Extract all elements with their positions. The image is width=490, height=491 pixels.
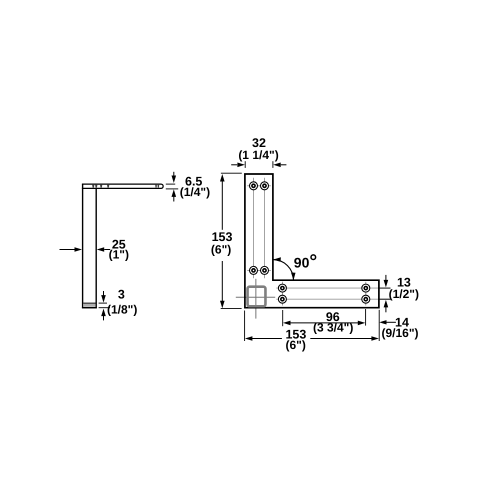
dim 96 line with arrows <box>283 321 365 326</box>
dim 13 arrow down <box>384 275 389 288</box>
svg-text:(1/8"): (1/8") <box>107 302 137 316</box>
hole B1 lower-left <box>247 266 260 274</box>
dim 153 left line with arrows <box>220 174 225 308</box>
hole A1 top-left <box>247 182 260 190</box>
svg-text:(9/16"): (9/16") <box>381 326 418 340</box>
square cutout (gray) <box>248 287 266 307</box>
hole B2 lower-right <box>258 266 271 274</box>
dim 6.5 (1/4") extension lines <box>166 184 178 189</box>
dim 3 extension lines <box>99 303 110 308</box>
dim 13 extension lines <box>380 288 391 299</box>
centerline: horizontal arm hole axis bottom <box>276 298 390 300</box>
svg-text:(1/2"): (1/2") <box>389 287 419 301</box>
svg-text:(1"): (1") <box>109 248 129 262</box>
dim 3 arrow down <box>101 291 106 303</box>
dim 25 arrow left <box>97 247 111 252</box>
dim 32 arrow left <box>273 163 286 168</box>
dim 32 extension lines <box>245 161 273 168</box>
L-plate outline <box>245 174 379 308</box>
svg-text:(1/4"): (1/4") <box>180 185 210 199</box>
hole C1 arm-left-top <box>278 282 286 295</box>
dim 3 arrow up <box>101 309 106 321</box>
dim 153 bottom extension line left <box>244 311 246 342</box>
hole C2 arm-left-bottom <box>278 293 286 306</box>
dim 25 arrow right <box>60 247 83 252</box>
svg-text:(6"): (6") <box>286 338 306 352</box>
svg-text:(1 1/4"): (1 1/4") <box>238 148 278 162</box>
hole D2 arm-right-bottom <box>362 293 370 306</box>
leg outline (side view) <box>82 184 97 307</box>
dim 153 bottom line with arrows <box>245 336 379 341</box>
label 90 deg <box>294 255 316 271</box>
centerline: square vertical <box>255 279 257 319</box>
dim 14 arrow left <box>379 320 396 324</box>
dim 13 arrow up <box>384 300 389 312</box>
centerline: vertical arm hole axis left <box>253 178 255 278</box>
dim 32 arrow right <box>231 163 245 168</box>
svg-text:(3 3/4"): (3 3/4") <box>313 320 353 334</box>
flange countersink marks <box>92 185 159 188</box>
svg-text:3: 3 <box>118 288 125 302</box>
svg-text:90: 90 <box>294 255 310 271</box>
centerline: horizontal arm hole axis top <box>276 287 390 289</box>
hole D1 arm-right-top <box>362 282 370 295</box>
dim 96 extension lines <box>283 309 366 326</box>
leg bottom plate cross-section (gray) <box>83 303 96 307</box>
hole A2 top-right <box>258 182 271 190</box>
centerline: vertical arm hole axis right <box>264 178 266 278</box>
dim 153 left extension lines <box>221 173 242 308</box>
svg-text:(6"): (6") <box>211 243 231 257</box>
90 degree arc <box>273 257 296 280</box>
dim 14 extension line <box>378 310 380 341</box>
dim 6.5 arrow down <box>172 172 177 183</box>
flange top bar (side view) <box>82 184 163 188</box>
dim 6.5 arrow up <box>172 189 177 201</box>
centerline: square horizontal <box>236 296 275 298</box>
